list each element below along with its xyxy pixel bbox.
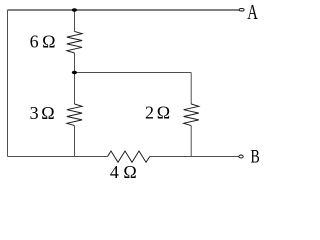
wire: 3-ohm top lead — [74, 73, 76, 105]
wire: 2-ohm top lead — [190, 73, 192, 105]
wire: bottom horizontal left of 4-ohm resistor — [8, 156, 108, 158]
wire: left vertical side — [7, 10, 9, 157]
resistor R 3 ohm — [67, 104, 82, 126]
wire: bottom horizontal right of 4-ohm resistor to terminal B — [150, 156, 239, 158]
resistor R 2 ohm — [184, 104, 199, 126]
wire: 2-ohm bottom lead — [190, 126, 192, 157]
svg-text:4: 4 — [110, 162, 119, 182]
svg-text:Ω: Ω — [123, 162, 136, 182]
wire: middle horizontal from node to 2-ohm branch — [75, 72, 192, 74]
terminal B circle — [239, 155, 243, 158]
resistor R 6 ohm — [67, 31, 82, 53]
svg-text:B: B — [251, 146, 260, 168]
svg-text:Ω: Ω — [41, 103, 54, 123]
svg-text:6: 6 — [30, 32, 39, 52]
node: junction dot between 6-ohm and 3-ohm — [72, 71, 77, 74]
svg-text:Ω: Ω — [157, 103, 170, 123]
svg-text:3: 3 — [30, 103, 39, 123]
wire: lead between 6-ohm and middle node — [74, 53, 76, 73]
node: junction dot at top of 6-ohm branch — [72, 8, 77, 11]
wire: 3-ohm bottom lead — [74, 126, 76, 157]
terminal A circle — [239, 8, 244, 11]
svg-text:Ω: Ω — [42, 32, 55, 52]
wire: 6-ohm top lead — [74, 10, 76, 32]
svg-text:A: A — [247, 1, 258, 24]
wire: top horizontal from left corner to terminal A — [8, 9, 240, 11]
svg-text:2: 2 — [145, 103, 154, 123]
resistor R 4 ohm — [108, 151, 150, 162]
